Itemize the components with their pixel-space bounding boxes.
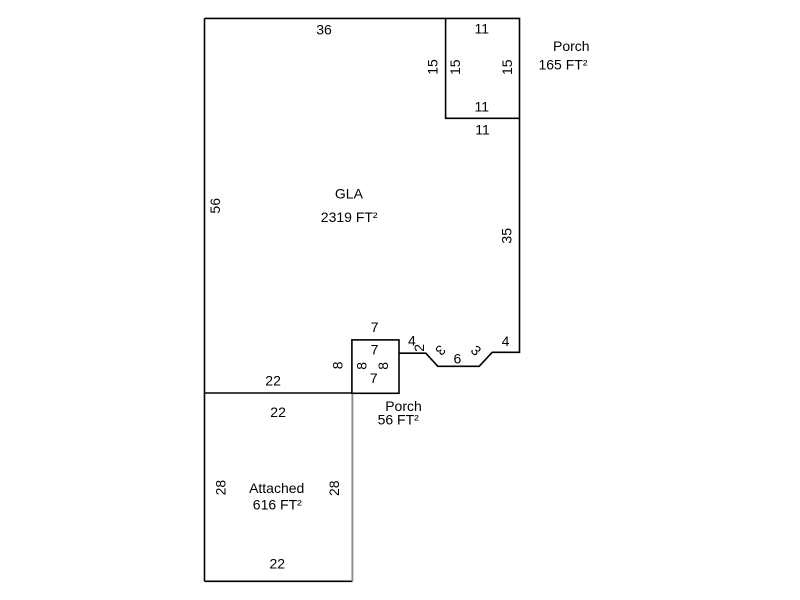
svg-text:36: 36	[316, 22, 332, 38]
svg-text:22: 22	[265, 373, 281, 389]
garage bottom edge	[205, 580, 353, 582]
porch 56 rectangle	[352, 340, 399, 393]
svg-text:7: 7	[371, 342, 379, 358]
svg-text:11: 11	[475, 122, 490, 138]
svg-text:6: 6	[454, 351, 462, 367]
svg-text:8: 8	[330, 361, 346, 369]
svg-text:7: 7	[371, 319, 379, 335]
svg-text:165 FT²: 165 FT²	[538, 57, 587, 73]
svg-text:28: 28	[326, 480, 342, 496]
svg-text:15: 15	[424, 59, 440, 75]
svg-text:GLA: GLA	[335, 186, 364, 202]
svg-text:15: 15	[499, 59, 515, 75]
svg-text:15: 15	[447, 59, 463, 75]
svg-text:7: 7	[370, 370, 378, 386]
svg-text:11: 11	[475, 99, 490, 115]
svg-text:616 FT²: 616 FT²	[253, 497, 302, 513]
svg-text:22: 22	[270, 555, 286, 571]
svg-text:8: 8	[375, 362, 391, 370]
svg-text:56 FT²: 56 FT²	[378, 412, 420, 428]
svg-text:22: 22	[270, 404, 286, 420]
svg-text:28: 28	[213, 480, 229, 496]
garage left edge	[204, 393, 206, 581]
svg-text:8: 8	[353, 362, 369, 370]
svg-text:2: 2	[411, 344, 427, 352]
svg-text:Attached: Attached	[249, 480, 304, 496]
porch 165 divider wall	[446, 18, 520, 118]
svg-text:2319 FT²: 2319 FT²	[321, 209, 378, 225]
svg-text:4: 4	[502, 333, 510, 349]
svg-text:56: 56	[207, 198, 223, 214]
garage right edge (gray)	[351, 394, 353, 582]
svg-text:35: 35	[499, 228, 515, 244]
svg-text:Porch: Porch	[553, 38, 590, 54]
svg-text:11: 11	[475, 21, 490, 37]
GLA main outline	[205, 18, 520, 393]
